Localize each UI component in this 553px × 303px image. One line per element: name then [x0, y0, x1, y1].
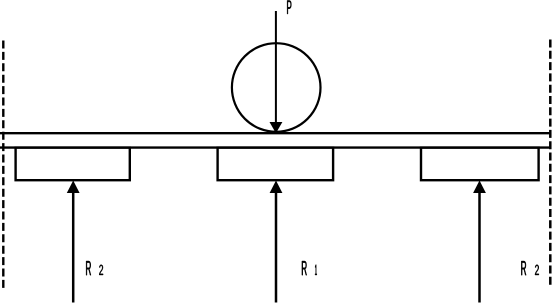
- label R2 (right reaction): [521, 261, 539, 275]
- load arrowhead (down): [270, 122, 283, 133]
- left support block: [16, 148, 130, 181]
- label R1 (middle reaction): [302, 261, 317, 275]
- beam bottom line: [0, 146, 551, 148]
- right reaction arrowhead (up): [473, 181, 486, 194]
- ball (circle) resting on beam: [232, 43, 321, 132]
- left dashed boundary line: [2, 41, 4, 289]
- middle reaction arrowhead (up): [270, 181, 283, 194]
- load arrow P shaft: [275, 11, 277, 124]
- middle reaction arrow shaft: [275, 192, 278, 303]
- left reaction arrowhead (up): [67, 181, 80, 194]
- right dashed boundary line: [549, 40, 552, 286]
- left reaction arrow shaft: [72, 192, 75, 303]
- middle support block: [218, 148, 334, 181]
- label R2 (left reaction): [86, 261, 103, 275]
- right reaction arrow shaft: [478, 192, 481, 303]
- right support block: [421, 148, 539, 181]
- beam top line: [0, 132, 551, 134]
- label P: [287, 0, 291, 14]
